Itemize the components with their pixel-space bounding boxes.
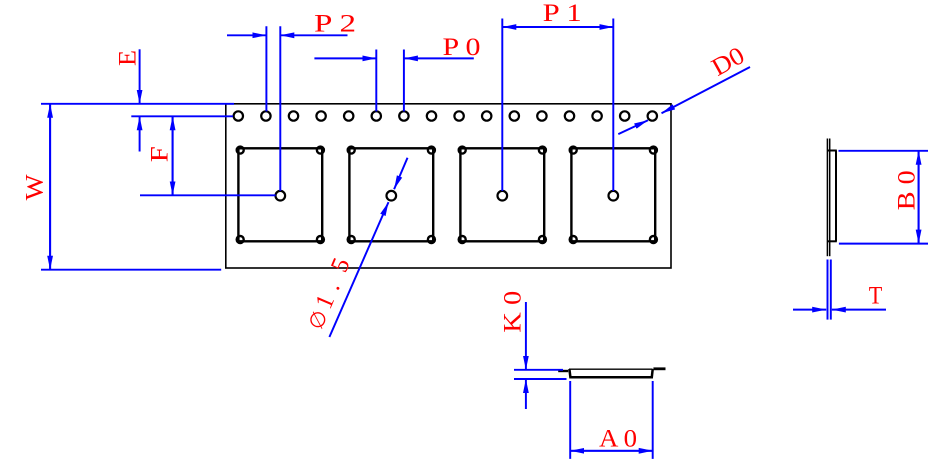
svg-text:B 0: B 0 xyxy=(893,170,920,210)
svg-text:T: T xyxy=(869,283,883,310)
svg-text:D0: D0 xyxy=(707,42,749,82)
svg-text:P 2: P 2 xyxy=(314,11,356,38)
svg-text:P 1: P 1 xyxy=(543,0,582,27)
svg-text:F: F xyxy=(147,146,174,162)
svg-text:P 0: P 0 xyxy=(443,34,481,61)
svg-text:E: E xyxy=(114,50,141,66)
svg-text:K 0: K 0 xyxy=(500,291,527,333)
svg-text:W: W xyxy=(21,174,48,200)
svg-text:A 0: A 0 xyxy=(599,425,637,452)
